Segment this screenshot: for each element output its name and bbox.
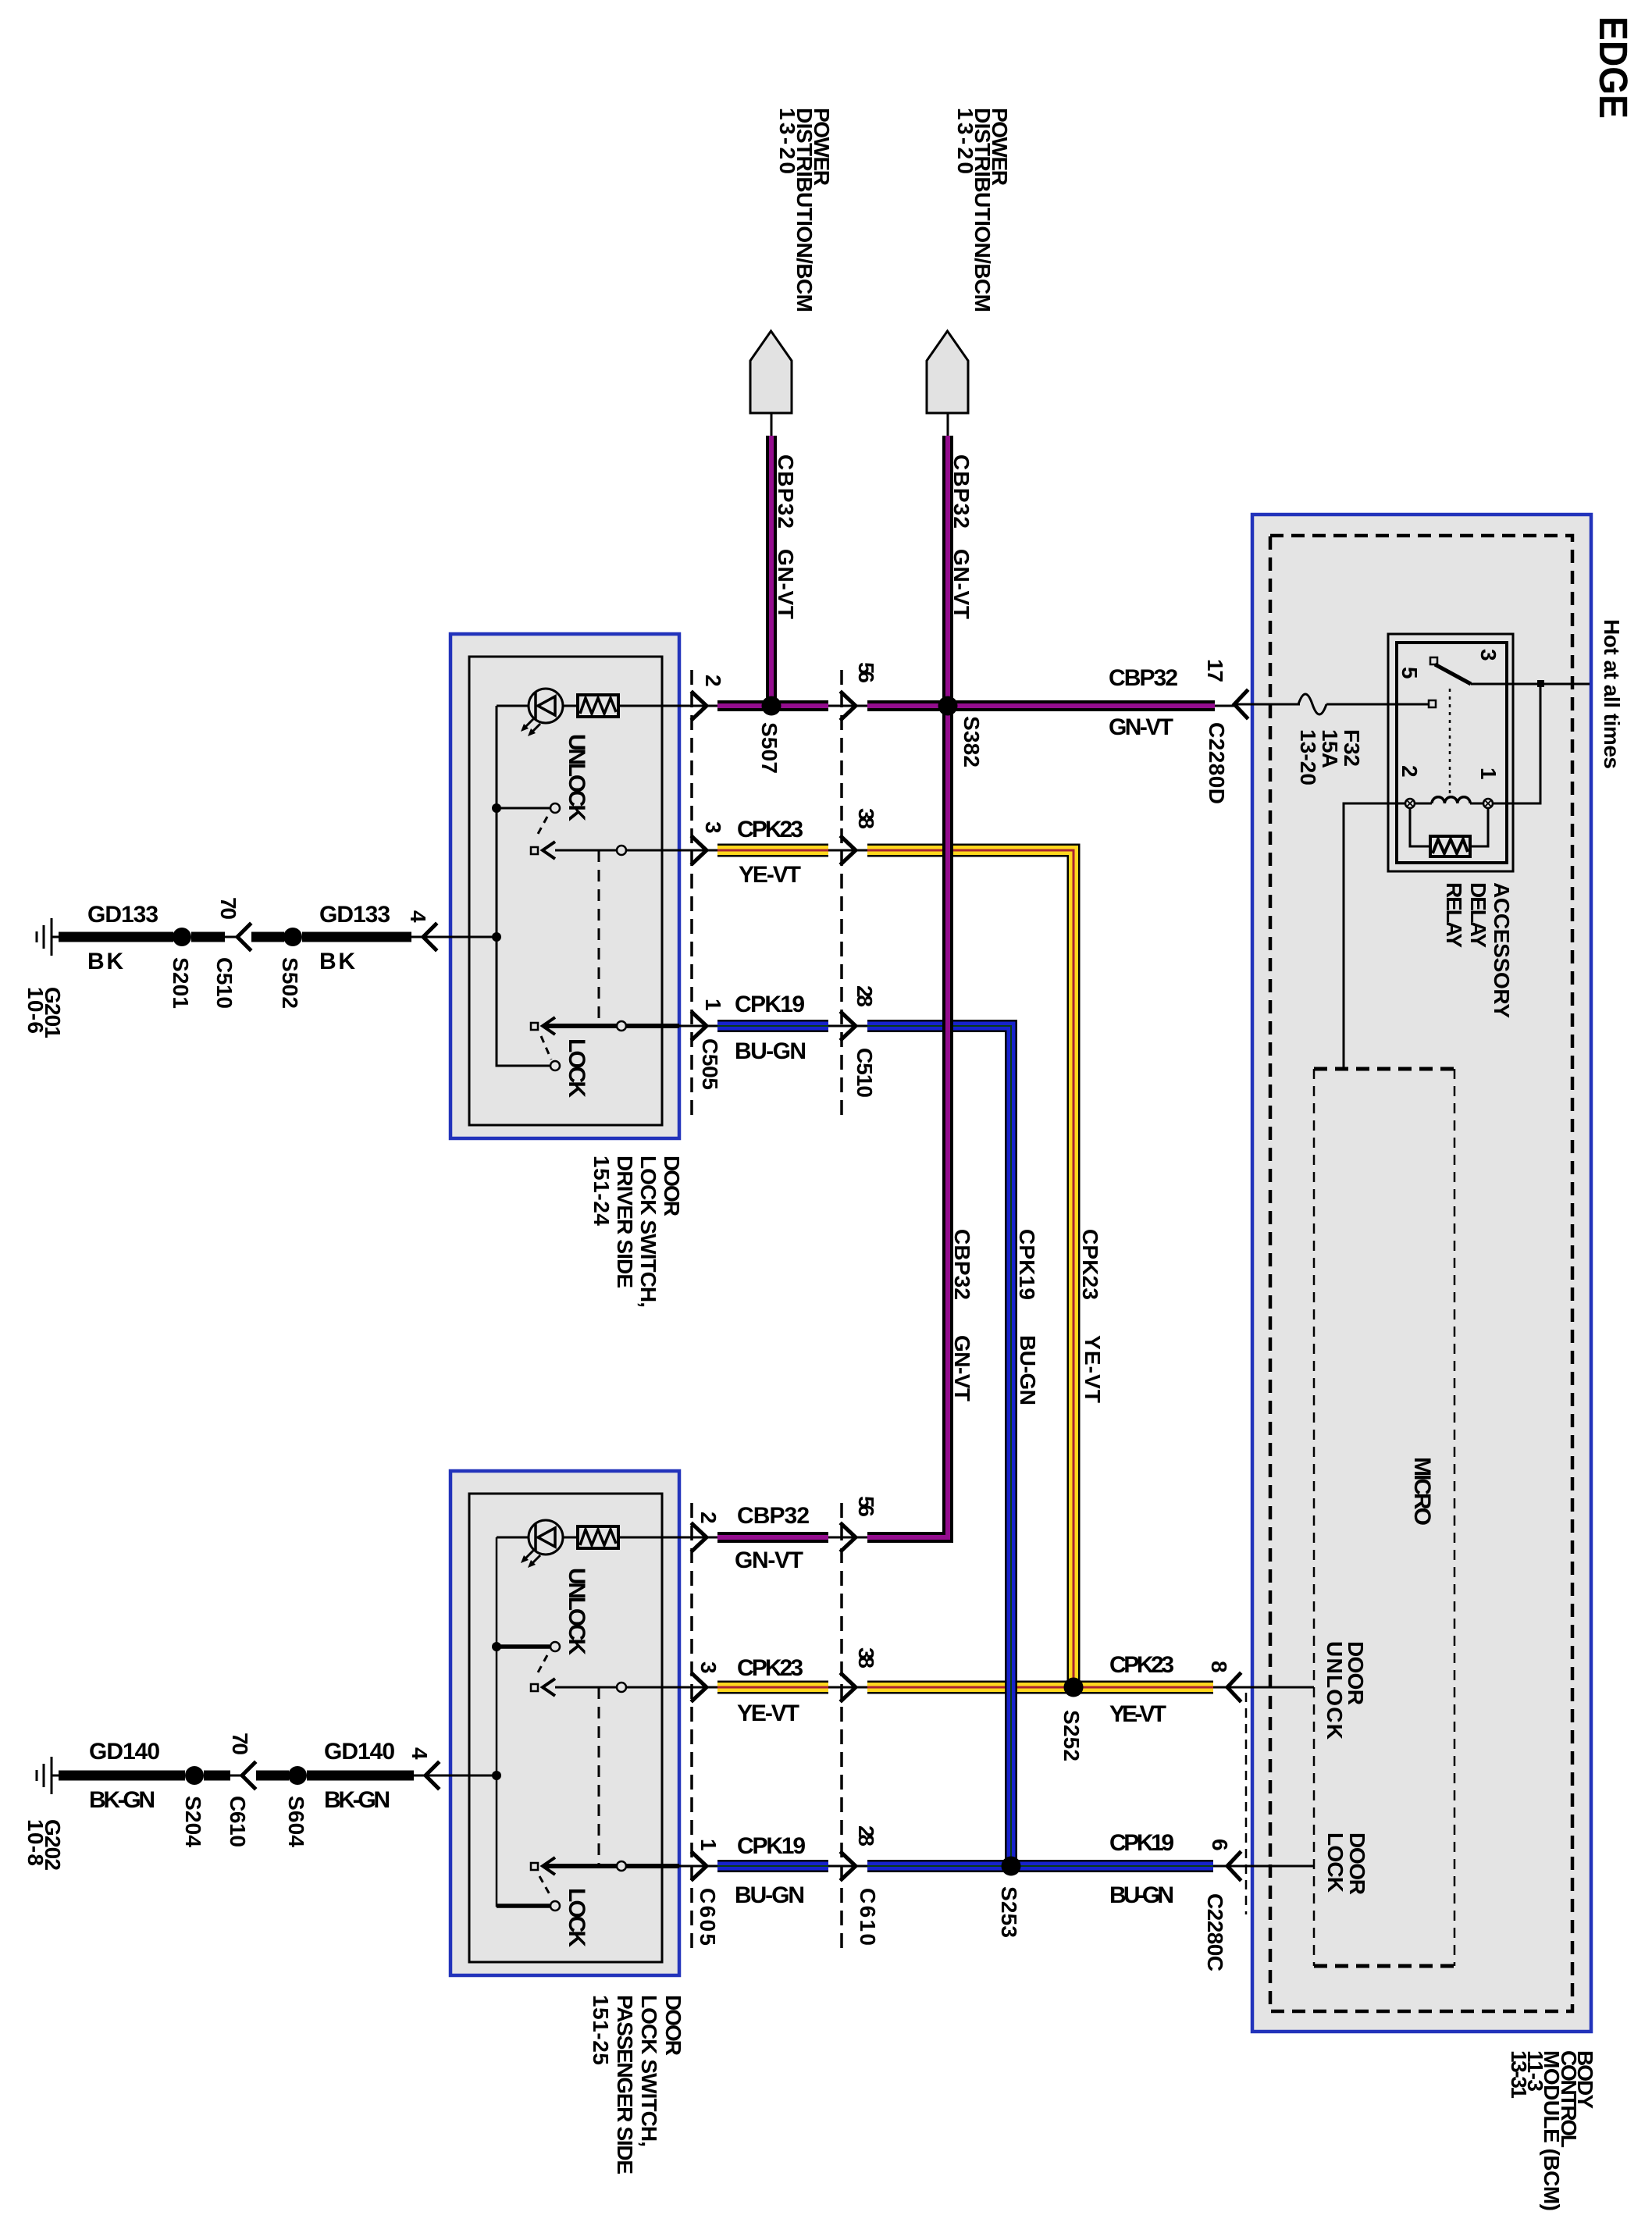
arrow 38 driver — [842, 837, 856, 864]
accessory delay relay outer box — [1388, 634, 1513, 871]
switch unlock blade driver (dashed) — [538, 817, 547, 834]
wire GD140 BK-GN segment 1 — [59, 1771, 185, 1781]
svg-text:1: 1 — [696, 1839, 721, 1851]
switch unlock wiper driver — [531, 847, 538, 854]
ground G202 symbol — [37, 1757, 61, 1794]
wire CPK19 BU-GN passenger segment B to S253 — [867, 1860, 1011, 1872]
relay coil terminal right (pin 1) — [1483, 799, 1493, 808]
wire pin17 to fuse — [1234, 703, 1300, 706]
svg-text:CPK23: CPK23 — [737, 817, 803, 842]
wire unlock contact passenger (bold) — [497, 1644, 550, 1649]
arrow pin1 passenger — [692, 1853, 707, 1879]
svg-text:13-20: 13-20 — [1296, 729, 1320, 785]
wire GD133 segment 3 — [251, 932, 284, 942]
junction on pin3 wire — [1537, 680, 1544, 687]
svg-text:MICRO: MICRO — [1409, 1457, 1435, 1526]
svg-text:151-24: 151-24 — [589, 1156, 614, 1226]
svg-text:S604: S604 — [284, 1796, 308, 1847]
svg-text:38: 38 — [854, 808, 878, 829]
wire CBP32 thin baseline passenger row — [692, 1537, 948, 1539]
arrow pin6 — [1227, 1853, 1240, 1879]
svg-text:10-6: 10-6 — [23, 987, 48, 1034]
driver door lock switch box — [450, 634, 679, 1138]
svg-text:GD140: GD140 — [89, 1739, 160, 1765]
svg-text:DOOR: DOOR — [1345, 1832, 1369, 1895]
resistor R1 driver — [578, 695, 618, 717]
wire GD133 BK segment 4 — [302, 932, 411, 942]
wire CBP32 thin baseline driver row — [692, 705, 1234, 707]
svg-text:S253: S253 — [997, 1886, 1021, 1938]
svg-text:C605: C605 — [696, 1888, 720, 1946]
arrow pin8 — [1227, 1674, 1240, 1701]
svg-text:CBP32: CBP32 — [950, 1229, 974, 1300]
svg-text:DELAY: DELAY — [1466, 882, 1490, 948]
svg-text:LOCK: LOCK — [564, 1038, 589, 1098]
arrow 28 driver — [842, 1013, 856, 1039]
svg-text:YE-VT: YE-VT — [1081, 1335, 1105, 1403]
splice S502 — [283, 928, 302, 946]
relay actuator dotted line — [1449, 689, 1451, 796]
svg-text:S382: S382 — [960, 716, 984, 767]
svg-text:UNLOCK: UNLOCK — [564, 1568, 589, 1655]
arrow pin2 passenger — [692, 1524, 707, 1551]
svg-text:C2280C: C2280C — [1203, 1893, 1227, 1971]
arrow 28 passenger — [842, 1853, 856, 1879]
ground G201 symbol — [37, 918, 61, 956]
relay pin 5 contact — [1429, 700, 1436, 707]
svg-text:1: 1 — [1476, 767, 1501, 780]
fuse F32 — [1298, 694, 1326, 714]
svg-text:5: 5 — [1397, 667, 1422, 679]
connector dashed line C605 — [690, 1503, 693, 1950]
MICRO dashed box inside BCM — [1314, 1069, 1454, 1966]
node circle on pin3 wire passenger — [617, 1683, 626, 1692]
wire CPK23 YE-VT passenger segment B to S252 — [867, 1681, 1073, 1694]
svg-text:BU-GN: BU-GN — [1109, 1882, 1174, 1908]
label POWER DISTRIBUTION/BCM 13-20 (right) — [953, 108, 1012, 312]
svg-text:LOCK: LOCK — [564, 1888, 589, 1947]
wire GD140 BK-GN segment 4 — [307, 1771, 414, 1781]
svg-text:PASSENGER SIDE: PASSENGER SIDE — [613, 1995, 637, 2174]
svg-text:C510: C510 — [212, 957, 237, 1009]
wire CBP32 GN-VT driver horizontal segment A — [717, 700, 828, 711]
splice S382 — [938, 696, 958, 716]
wire unlock contact driver — [497, 807, 550, 810]
arrow pin3 passenger — [692, 1674, 707, 1701]
svg-text:CPK19: CPK19 — [735, 992, 805, 1017]
svg-text:S252: S252 — [1059, 1710, 1084, 1761]
splice S204 — [185, 1766, 204, 1785]
svg-text:F32: F32 — [1340, 729, 1364, 767]
svg-text:15A: 15A — [1318, 729, 1342, 768]
svg-text:13-20: 13-20 — [953, 108, 977, 174]
node circle on pin3 wire driver — [617, 846, 626, 855]
power distribution connector 1 (pentagon) — [750, 331, 792, 436]
switch unlock blade passenger (dashed) — [538, 1655, 547, 1672]
svg-text:BK-GN: BK-GN — [89, 1787, 155, 1813]
svg-text:C610: C610 — [226, 1796, 250, 1847]
svg-text:EDGE: EDGE — [1591, 16, 1636, 119]
splice S252 — [1064, 1678, 1084, 1697]
svg-text:S201: S201 — [169, 957, 193, 1009]
svg-text:YE-VT: YE-VT — [739, 862, 801, 888]
node junction unlock driver — [492, 803, 501, 813]
svg-text:YE-VT: YE-VT — [737, 1701, 799, 1726]
svg-text:C510: C510 — [853, 1048, 877, 1098]
splice S604 — [288, 1766, 307, 1785]
relay coil terminal left (pin 2) — [1405, 799, 1415, 808]
svg-text:56: 56 — [854, 662, 878, 683]
svg-text:3: 3 — [696, 1661, 721, 1674]
svg-text:28: 28 — [853, 985, 877, 1007]
wire CPK23 YE-VT passenger segment A — [717, 1681, 828, 1694]
LED D1 driver — [521, 689, 563, 736]
wire GD133 segment 2 — [191, 932, 225, 942]
wire GD140 segment 3 — [256, 1771, 289, 1781]
wire CPK23 YE-VT S252 to BCM pin 8 — [1073, 1681, 1213, 1694]
wire CBP32 GN-VT pentagon1 vertical — [766, 436, 777, 706]
svg-text:BU-GN: BU-GN — [735, 1882, 805, 1908]
accessory delay relay inner box — [1397, 643, 1507, 863]
svg-text:CPK19: CPK19 — [1015, 1229, 1039, 1300]
svg-text:CPK23: CPK23 — [1078, 1229, 1102, 1300]
svg-text:13-31: 13-31 — [1507, 2050, 1531, 2099]
svg-text:CPK19: CPK19 — [737, 1833, 806, 1859]
svg-text:GN-VT: GN-VT — [774, 549, 798, 619]
svg-text:C2280D: C2280D — [1205, 722, 1229, 804]
node junction pin4 passenger — [492, 1771, 501, 1780]
svg-text:S502: S502 — [278, 957, 302, 1009]
node junction unlock passenger — [492, 1642, 501, 1651]
switch lock blade driver (dashed) — [541, 1036, 551, 1060]
wire branch vertical driver — [497, 706, 550, 1066]
node junction pin4 driver — [492, 932, 501, 942]
arrow 56 passenger — [842, 1524, 856, 1551]
svg-text:S507: S507 — [757, 722, 781, 774]
wire fuse to relay pin 5 — [1326, 703, 1429, 706]
svg-text:4: 4 — [406, 910, 430, 923]
wire CBP32 GN-VT passenger horizontal segment — [717, 1532, 828, 1543]
switch lock contact passenger — [550, 1901, 560, 1911]
arrow 38 passenger — [842, 1674, 856, 1701]
svg-text:UNLOCK: UNLOCK — [1323, 1641, 1347, 1740]
wire BCM pin8 to MICRO — [1227, 1686, 1314, 1689]
svg-text:C610: C610 — [856, 1888, 880, 1946]
svg-text:13-20: 13-20 — [775, 108, 799, 174]
wire junction down to coil pin 1 — [1488, 684, 1540, 803]
relay coil suppression resistor — [1430, 836, 1470, 857]
svg-text:LOCK SWITCH,: LOCK SWITCH, — [637, 1995, 661, 2147]
svg-text:2: 2 — [701, 675, 725, 687]
wire CPK23 thin baseline passenger row — [555, 1686, 1234, 1689]
svg-text:6: 6 — [1208, 1839, 1232, 1851]
relay coil — [1432, 797, 1470, 803]
svg-text:GN-VT: GN-VT — [950, 1335, 974, 1401]
svg-text:LOCK SWITCH,: LOCK SWITCH, — [636, 1156, 660, 1308]
wire into passenger box pin 4 — [414, 1775, 497, 1777]
switch lock wiper passenger — [531, 1863, 538, 1870]
power distribution connector 2 (pentagon) — [927, 331, 968, 436]
wire CPK19 BU-GN driver segment A — [717, 1020, 828, 1032]
svg-text:ACCESSORY: ACCESSORY — [1490, 882, 1514, 1018]
svg-text:151-25: 151-25 — [589, 1995, 613, 2065]
svg-text:70: 70 — [228, 1733, 252, 1755]
arrow C610 pin 70 — [242, 1763, 255, 1788]
splice S507 — [762, 696, 781, 716]
node circle on pin1 wire driver — [617, 1021, 626, 1031]
wire GD133 BK segment 1 — [59, 932, 173, 942]
wire CBP32 GN-VT pentagon2 vertical + passenger corner — [867, 436, 948, 1537]
passenger door lock switch box — [450, 1471, 679, 1975]
wire relay pin3 to Hot at all times — [1471, 683, 1590, 686]
svg-text:4: 4 — [408, 1747, 432, 1760]
wire led row driver — [497, 705, 717, 707]
switch unlock contact passenger — [550, 1642, 560, 1651]
svg-text:8: 8 — [1207, 1661, 1231, 1673]
svg-text:C505: C505 — [698, 1038, 722, 1090]
svg-text:17: 17 — [1203, 659, 1227, 682]
splice S253 — [1002, 1857, 1021, 1876]
relay switch blade — [1435, 664, 1471, 684]
svg-text:YE-VT: YE-VT — [1109, 1701, 1166, 1727]
mechanical link passenger (dashed) — [598, 1687, 600, 1866]
svg-text:GN-VT: GN-VT — [1109, 714, 1173, 740]
arrow C505 pin 4 — [423, 924, 436, 949]
arrow pin2 driver — [692, 693, 707, 719]
svg-text:DRIVER SIDE: DRIVER SIDE — [613, 1156, 637, 1288]
wire branch vertical passenger — [497, 1537, 550, 1906]
svg-text:CBP32: CBP32 — [774, 454, 798, 529]
svg-text:CPK23: CPK23 — [737, 1655, 803, 1681]
switch lock blade passenger (dashed) — [539, 1876, 550, 1896]
svg-text:CBP32: CBP32 — [949, 454, 974, 529]
arrow C510 pin 70 — [237, 924, 250, 949]
svg-text:S204: S204 — [181, 1796, 205, 1847]
arrow pin3 driver — [692, 837, 707, 864]
connector dashed line C510 — [840, 670, 843, 1115]
arrow pin17 C2280D — [1234, 691, 1247, 718]
connector dashed line C610 — [840, 1503, 843, 1950]
switch lock contact driver — [550, 1061, 560, 1070]
splice S201 — [173, 928, 191, 946]
wire CPK19 thin baseline driver row — [679, 1025, 867, 1027]
svg-text:2: 2 — [696, 1512, 721, 1524]
arrow pin1 driver — [692, 1013, 707, 1039]
svg-text:DOOR: DOOR — [660, 1156, 684, 1216]
svg-text:GD133: GD133 — [319, 902, 390, 928]
svg-text:70: 70 — [216, 897, 240, 920]
wire GD140 segment 2 — [204, 1771, 230, 1781]
svg-text:CBP32: CBP32 — [1109, 665, 1178, 691]
svg-text:Hot at all times: Hot at all times — [1600, 619, 1624, 769]
wire CPK23 thin baseline driver row — [555, 849, 867, 852]
switch unlock contact driver — [550, 803, 560, 813]
svg-text:RELAY: RELAY — [1442, 882, 1466, 948]
svg-text:BU-GN: BU-GN — [1016, 1335, 1040, 1405]
connector dashed line C2280C — [1245, 1693, 1248, 1914]
svg-text:BK-GN: BK-GN — [324, 1787, 390, 1813]
svg-text:2: 2 — [1397, 765, 1422, 778]
svg-text:UNLOCK: UNLOCK — [564, 734, 589, 821]
label POWER DISTRIBUTION/BCM 13-20 (left) — [775, 108, 834, 312]
svg-text:28: 28 — [854, 1825, 878, 1847]
wire CPK19 BU-GN passenger segment A — [717, 1860, 828, 1872]
svg-text:GD140: GD140 — [324, 1739, 395, 1765]
wire lock wiper to pin1 passenger (bold) — [544, 1864, 679, 1868]
svg-text:1: 1 — [701, 999, 725, 1011]
svg-text:GN-VT: GN-VT — [735, 1547, 803, 1573]
wire BCM pin6 to MICRO — [1227, 1865, 1314, 1868]
svg-text:3: 3 — [1476, 649, 1501, 661]
wire coil pin2 to micro — [1344, 803, 1405, 1069]
arrow 56 driver — [842, 693, 856, 719]
svg-text:BU-GN: BU-GN — [735, 1038, 806, 1064]
switch unlock wiper passenger — [531, 1684, 538, 1691]
wire CPK19 thin baseline passenger row — [679, 1865, 1234, 1868]
svg-text:CPK23: CPK23 — [1109, 1652, 1174, 1678]
relay pin 3 contact — [1430, 657, 1437, 664]
mechanical link driver (dashed) — [598, 850, 600, 1026]
wire CPK19 BU-GN driver corner down to S253 — [867, 1026, 1011, 1866]
wire led row passenger — [497, 1537, 717, 1539]
wire lock wiper to pin1 driver (bold) — [544, 1024, 679, 1028]
switch lock wiper driver — [531, 1023, 538, 1030]
node circle on pin1 wire passenger — [617, 1861, 626, 1871]
svg-text:DOOR: DOOR — [661, 1995, 685, 2056]
wire CPK23 YE-VT driver segment A — [717, 844, 828, 857]
svg-text:CPK19: CPK19 — [1109, 1830, 1174, 1856]
wire CPK19 BU-GN S253 to BCM pin 6 — [1011, 1860, 1213, 1872]
svg-text:GD133: GD133 — [87, 902, 158, 928]
svg-text:GN-VT: GN-VT — [949, 549, 974, 619]
svg-text:LOCK: LOCK — [1323, 1832, 1348, 1893]
svg-text:56: 56 — [854, 1496, 878, 1517]
arrow C605 pin 4 — [425, 1763, 438, 1788]
BCM module box (body control module) — [1252, 515, 1591, 2032]
LED D1 passenger — [521, 1520, 563, 1568]
connector dashed line C505 — [690, 670, 693, 1115]
svg-text:CBP32: CBP32 — [737, 1503, 810, 1529]
resistor R1 passenger — [578, 1526, 618, 1548]
svg-text:38: 38 — [854, 1647, 878, 1669]
wire into driver box pin 4 — [411, 936, 497, 938]
svg-text:3: 3 — [701, 821, 725, 834]
wire lock contact passenger (bold) — [497, 1904, 550, 1908]
wire CBP32 GN-VT driver horizontal segment B to C2280D — [867, 700, 1215, 711]
wire CPK23 YE-VT driver corner down to S252 — [867, 850, 1073, 1687]
svg-text:10-8: 10-8 — [23, 1819, 48, 1866]
